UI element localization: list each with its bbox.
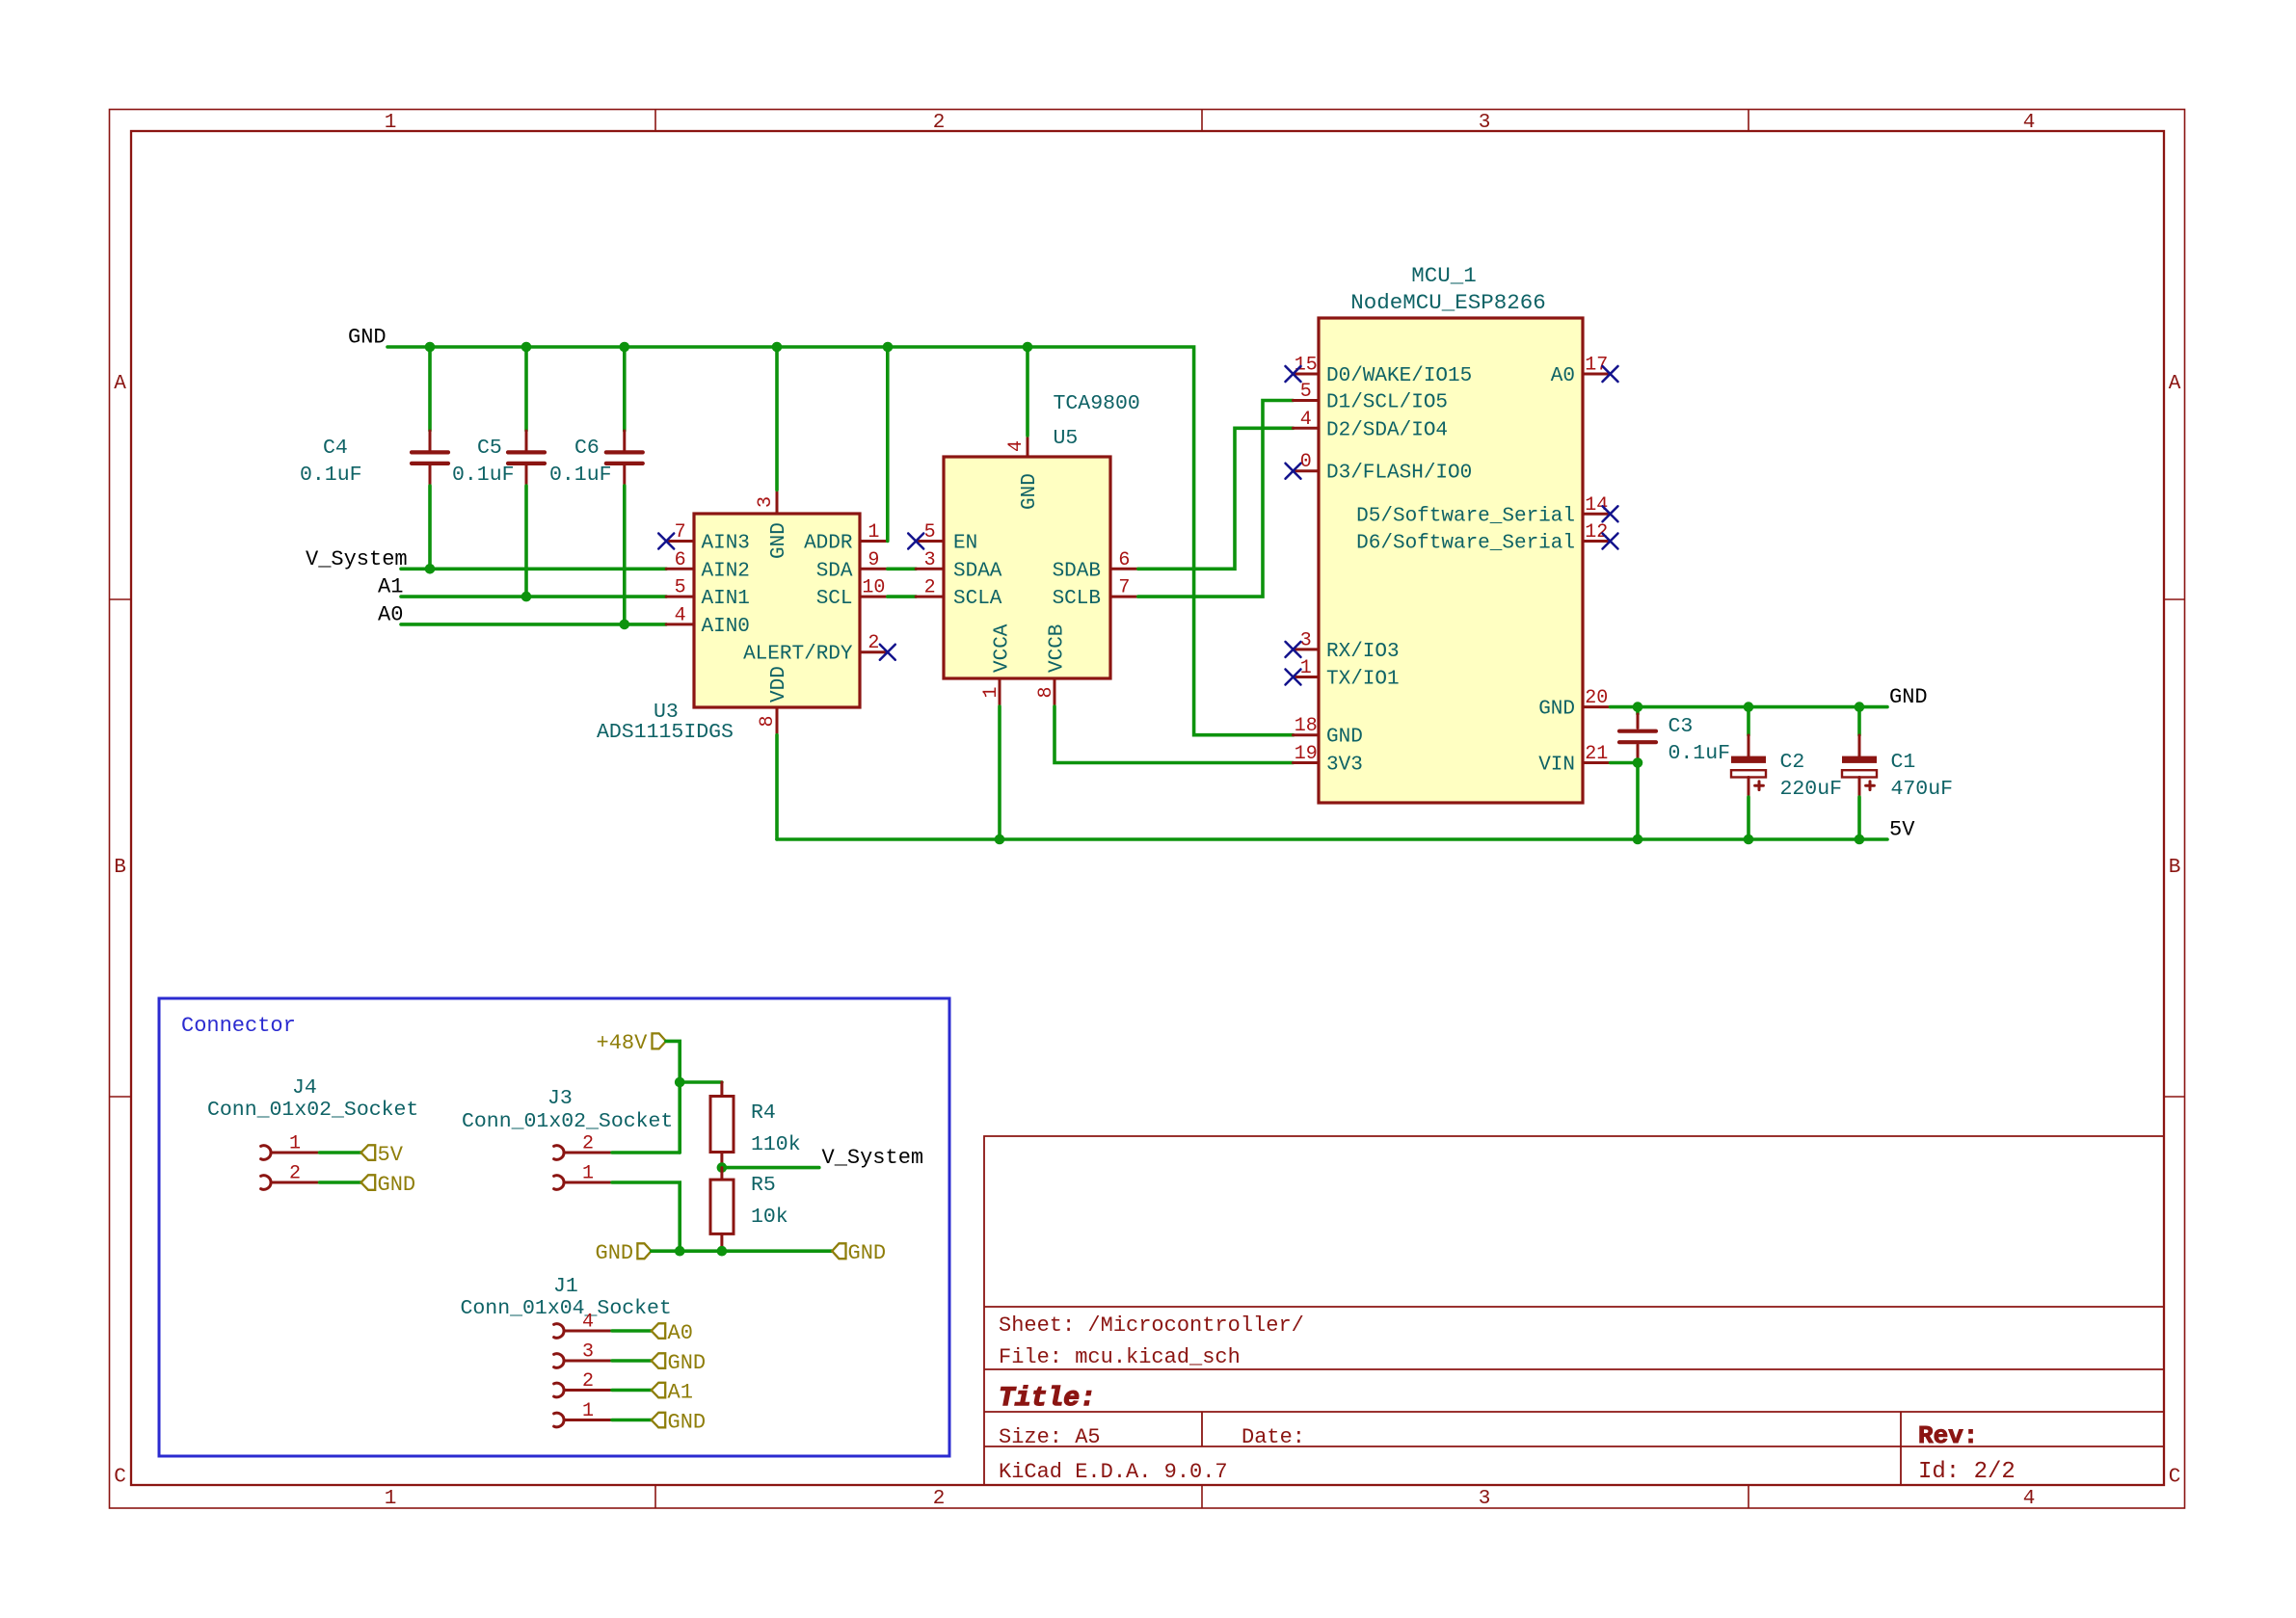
no-connect U3 ALERT/RDY	[880, 645, 895, 660]
svg-text:AIN2: AIN2	[702, 560, 750, 582]
junction +48V at R4 branch	[675, 1077, 685, 1088]
sheet frame outer border	[110, 110, 2185, 1509]
pin 5 EN	[916, 521, 977, 555]
svg-text:A0: A0	[378, 602, 403, 626]
wire MCU GND20 rail right	[1611, 705, 1888, 709]
pin 1 TX/IO1	[1294, 657, 1400, 691]
wire C6 bottom to A0	[623, 486, 627, 624]
wire SDA to SDAA	[888, 567, 916, 570]
no-connect U3 AIN3	[658, 534, 674, 549]
pin 10 SCL	[816, 577, 888, 611]
hierarchical label A0 (J1.4)	[652, 1321, 693, 1345]
IC U5 TCA9800 body	[944, 457, 1110, 678]
wire C5 bottom to A1	[524, 486, 528, 597]
svg-text:A1: A1	[378, 575, 403, 599]
hierarchical label A1 (J1.2)	[652, 1381, 693, 1405]
no-connect MCU RX	[1286, 642, 1301, 657]
capacitor C6 body	[623, 431, 626, 450]
pin 2 J3 socket	[554, 1146, 564, 1160]
svg-text:1: 1	[385, 112, 397, 134]
wire C1 bottom to 5V rail	[1857, 797, 1861, 839]
svg-text:GND: GND	[668, 1411, 707, 1435]
wire 5V rail	[777, 837, 1887, 841]
svg-text:GND: GND	[668, 1351, 707, 1375]
svg-text:Size: A5: Size: A5	[999, 1425, 1101, 1449]
svg-text:D2/SDA/IO4: D2/SDA/IO4	[1326, 419, 1448, 441]
svg-text:C: C	[2169, 1467, 2181, 1489]
svg-text:SDAA: SDAA	[953, 560, 1002, 582]
wire J3 pin2 to +48V net	[612, 1151, 680, 1154]
hierarchical label GND (J1.1)	[652, 1411, 706, 1435]
hierarchical label GND (J4)	[361, 1173, 416, 1197]
pin 1 VCCA bottom of U5	[980, 623, 1014, 706]
pin 14 D5/Software_Serial	[1356, 494, 1610, 528]
svg-text:1: 1	[868, 521, 879, 544]
svg-text:B: B	[2169, 857, 2181, 879]
svg-text:GND: GND	[1326, 727, 1363, 749]
sheet frame inner border	[131, 131, 2164, 1485]
svg-text:19: 19	[1295, 743, 1318, 765]
svg-text:10k: 10k	[751, 1206, 788, 1229]
wire C2 top	[1747, 707, 1750, 735]
svg-text:R4: R4	[751, 1101, 776, 1125]
pin 6 SDAB	[1053, 549, 1138, 583]
svg-text:17: 17	[1585, 355, 1608, 377]
svg-text:A0: A0	[1551, 365, 1575, 387]
capacitor C1 (polarized)	[1842, 707, 1953, 839]
svg-text:Title:: Title:	[999, 1384, 1096, 1414]
no-connect MCU TX	[1286, 670, 1301, 685]
no-connect MCU D6	[1603, 534, 1618, 549]
svg-text:1: 1	[1300, 657, 1312, 679]
svg-text:5V: 5V	[378, 1143, 404, 1167]
svg-text:VIN: VIN	[1538, 755, 1575, 777]
svg-text:4: 4	[1005, 440, 1028, 452]
svg-text:GND: GND	[378, 1173, 416, 1197]
junction GND rail at R5	[717, 1246, 728, 1257]
svg-text:4: 4	[582, 1312, 594, 1334]
svg-text:GND: GND	[848, 1241, 887, 1265]
svg-text:20: 20	[1585, 687, 1608, 709]
svg-text:0.1uF: 0.1uF	[452, 464, 515, 487]
svg-text:1: 1	[582, 1400, 594, 1422]
svg-text:Sheet: /Microcontroller/: Sheet: /Microcontroller/	[999, 1313, 1304, 1338]
pin 4 GND top of U5	[1005, 436, 1041, 510]
svg-text:SCLB: SCLB	[1053, 588, 1101, 610]
svg-text:KiCad E.D.A. 9.0.7: KiCad E.D.A. 9.0.7	[999, 1460, 1228, 1484]
junction GND rail at U3 ADDR	[883, 342, 894, 353]
svg-text:C: C	[114, 1467, 126, 1489]
capacitor C5	[452, 347, 545, 597]
resistor R4	[710, 1082, 801, 1168]
svg-text:3: 3	[924, 549, 936, 571]
pin 1 ADDR	[804, 521, 888, 555]
svg-text:2: 2	[924, 577, 936, 599]
wire GND top rail to MCU pin 18	[387, 347, 1294, 735]
svg-text:5: 5	[1300, 381, 1312, 403]
pin 9 SDA	[816, 549, 888, 583]
svg-text:D5/Software_Serial: D5/Software_Serial	[1356, 505, 1575, 527]
svg-text:5: 5	[675, 577, 686, 599]
wire +48V branch to R4	[680, 1080, 722, 1084]
pin 1 J1 socket	[554, 1413, 564, 1427]
svg-text:VDD: VDD	[768, 666, 790, 703]
no-connect MCU A0	[1603, 366, 1618, 382]
svg-text:3: 3	[755, 496, 777, 508]
capacitor C4 body	[429, 431, 432, 450]
svg-text:SCLA: SCLA	[953, 588, 1002, 610]
frame row tick B/C	[110, 1096, 132, 1098]
junction VIN at C3	[1633, 757, 1643, 768]
pin 4 AIN0	[666, 604, 750, 638]
capacitor C2 body	[1748, 735, 1750, 756]
no-connect MCU D3	[1286, 464, 1301, 479]
frame column tick 1/2	[654, 110, 656, 132]
pin 4 J1 socket	[554, 1324, 564, 1339]
svg-text:3: 3	[1300, 629, 1312, 651]
svg-text:110k: 110k	[751, 1133, 801, 1156]
svg-text:GND: GND	[1889, 685, 1928, 709]
svg-text:1: 1	[582, 1163, 594, 1185]
svg-text:ADS1115IDGS: ADS1115IDGS	[597, 721, 734, 744]
svg-text:Date:: Date:	[1241, 1425, 1305, 1449]
svg-text:470uF: 470uF	[1891, 778, 1954, 801]
connector J1	[461, 1275, 672, 1427]
pin 2 SCLA	[916, 577, 1002, 611]
svg-text:D3/FLASH/IO0: D3/FLASH/IO0	[1326, 463, 1472, 485]
capacitor C1 body	[1858, 735, 1861, 756]
pin 3 RX/IO3	[1294, 629, 1400, 663]
pin 17 A0 right of MCU	[1551, 355, 1611, 388]
svg-text:Id: 2/2: Id: 2/2	[1918, 1459, 2016, 1485]
svg-text:220uF: 220uF	[1780, 778, 1843, 801]
svg-text:2: 2	[582, 1133, 594, 1155]
svg-text:7: 7	[1118, 577, 1130, 599]
svg-text:J4: J4	[292, 1076, 317, 1100]
pin 3 GND top of U3	[755, 490, 790, 559]
capacitor C3	[1619, 707, 1730, 839]
svg-text:C1: C1	[1891, 751, 1916, 774]
frame row tick A/B	[110, 598, 132, 600]
svg-text:2: 2	[289, 1163, 301, 1185]
svg-text:9: 9	[868, 549, 879, 571]
wire U3 VDD down to 5V rail	[775, 735, 779, 839]
capacitor C2 (polarized)	[1731, 707, 1842, 839]
capacitor C3 body	[1637, 714, 1640, 728]
connector J3	[462, 1087, 680, 1251]
pin 4 D2/SDA/IO4	[1294, 409, 1449, 442]
pin 21 VIN	[1538, 743, 1610, 777]
svg-text:5V: 5V	[1889, 818, 1915, 842]
svg-text:A0: A0	[668, 1321, 693, 1345]
svg-text:4: 4	[675, 604, 686, 626]
pin 12 D6/Software_Serial	[1356, 521, 1610, 555]
svg-text:VCCA: VCCA	[992, 623, 1014, 673]
pin 1 J4 socket	[261, 1146, 271, 1160]
pin 2 ALERT/RDY	[743, 632, 888, 666]
no-connect MCU D5	[1603, 506, 1618, 521]
hierarchical label +48V	[597, 1031, 666, 1055]
no-connect U5 EN	[908, 534, 923, 549]
hierarchical label GND (right of divider)	[832, 1241, 886, 1265]
svg-text:C3: C3	[1669, 715, 1694, 738]
svg-text:GND: GND	[768, 522, 790, 559]
junction GND rail at U5 GND	[1023, 342, 1033, 353]
svg-text:12: 12	[1585, 521, 1608, 544]
wire C1 top	[1857, 707, 1861, 735]
wire SDAB to MCU D2/SDA/IO4	[1138, 428, 1294, 569]
svg-text:D6/Software_Serial: D6/Software_Serial	[1356, 533, 1575, 555]
resistor R5	[710, 1168, 788, 1252]
svg-text:4: 4	[1300, 409, 1312, 431]
wire C4 top	[428, 347, 432, 431]
svg-text:GND: GND	[596, 1241, 634, 1265]
wire C2 bottom to 5V rail	[1747, 797, 1750, 839]
svg-text:3: 3	[1479, 112, 1491, 134]
svg-text:AIN1: AIN1	[702, 588, 750, 610]
pin 5 AIN1	[666, 577, 750, 611]
junction 5V rail at C1	[1855, 835, 1865, 845]
svg-text:C5: C5	[477, 437, 502, 460]
junction GND20 at C3	[1633, 702, 1643, 712]
svg-text:2: 2	[868, 632, 879, 654]
pin 15 D0/WAKE/IO15	[1294, 355, 1473, 388]
svg-text:0.1uF: 0.1uF	[549, 464, 612, 487]
pin 1 J3 socket	[554, 1176, 564, 1190]
wire C5 top	[524, 347, 528, 431]
wire J4 pin2 to GND hier label	[320, 1180, 361, 1184]
svg-text:TCA9800: TCA9800	[1054, 392, 1140, 415]
capacitor C6	[549, 347, 643, 624]
svg-text:U5: U5	[1054, 427, 1079, 450]
wire GND rail of divider	[652, 1249, 833, 1253]
svg-text:Conn_01x02_Socket: Conn_01x02_Socket	[462, 1110, 673, 1133]
svg-text:0: 0	[1300, 451, 1312, 473]
svg-text:A: A	[114, 373, 126, 395]
pin 2 J4 socket	[261, 1176, 271, 1190]
junction 5V rail at C2	[1744, 835, 1754, 845]
svg-text:1: 1	[385, 1488, 397, 1510]
wire J4 pin1 to 5V hier label	[320, 1151, 361, 1154]
svg-text:A1: A1	[668, 1381, 693, 1405]
pin 2 J1 socket	[554, 1383, 564, 1397]
title block outline	[984, 1136, 2164, 1485]
wire +48V down to J3 pin 2	[666, 1041, 680, 1153]
junction GND rail at C6	[620, 342, 630, 353]
junction GND rail at J3 pin1	[675, 1246, 685, 1257]
svg-text:5: 5	[924, 521, 936, 544]
svg-text:18: 18	[1295, 715, 1318, 737]
wire divider tap to V_System label	[722, 1166, 819, 1170]
hierarchical label GND (J1.3)	[652, 1351, 706, 1375]
junction A0 at C6	[620, 620, 630, 630]
capacitor C4	[300, 347, 448, 569]
svg-text:8: 8	[757, 715, 779, 727]
junction GND20 at C1	[1855, 702, 1865, 712]
wire A0 to AIN0	[401, 623, 666, 626]
wire A1 to AIN1	[401, 595, 666, 598]
pin 8 VDD bottom of U3	[757, 666, 790, 735]
pin 0 D3/FLASH/IO0	[1294, 451, 1473, 485]
svg-text:3V3: 3V3	[1326, 755, 1363, 777]
op-amp U3 ADS1115IDGS body	[694, 514, 860, 707]
svg-text:6: 6	[675, 549, 686, 571]
wire MCU VIN to C3	[1611, 761, 1639, 765]
wire V_System to AIN2	[401, 567, 666, 570]
svg-text:B: B	[114, 857, 126, 879]
svg-text:Conn_01x04_Socket: Conn_01x04_Socket	[461, 1297, 672, 1320]
hierarchical label 5V (J4)	[361, 1143, 404, 1167]
junction 5V rail at C3	[1633, 835, 1643, 845]
pin 6 AIN2	[666, 549, 750, 583]
svg-text:V_System: V_System	[822, 1146, 924, 1170]
svg-text:Connector: Connector	[181, 1014, 296, 1038]
svg-text:8: 8	[1035, 686, 1057, 698]
wire J3 pin1 to GND net	[612, 1182, 680, 1251]
wire C6 top	[623, 347, 627, 431]
wire U5 GND pin to rail	[1026, 347, 1029, 436]
no-connect MCU D0	[1286, 366, 1301, 382]
svg-text:D0/WAKE/IO15: D0/WAKE/IO15	[1326, 365, 1472, 387]
svg-text:0.1uF: 0.1uF	[300, 464, 362, 487]
pin 19 3V3	[1294, 743, 1363, 777]
svg-text:14: 14	[1585, 494, 1608, 517]
svg-text:10: 10	[862, 577, 885, 599]
Connector group box	[159, 998, 949, 1456]
pin 3 J1 socket	[554, 1354, 564, 1368]
svg-text:6: 6	[1118, 549, 1130, 571]
frame column tick 3/4	[1748, 110, 1749, 132]
pin 7 AIN3	[666, 521, 750, 555]
svg-text:File: mcu.kicad_sch: File: mcu.kicad_sch	[999, 1345, 1241, 1369]
pin 3 SDAA	[916, 549, 1002, 583]
junction GND rail at U3 GND	[772, 342, 783, 353]
svg-text:TX/IO1: TX/IO1	[1326, 669, 1400, 691]
connector J4	[207, 1076, 418, 1189]
pin 5 D1/SCL/IO5	[1294, 381, 1449, 414]
svg-text:J3: J3	[547, 1087, 573, 1110]
svg-text:SDAB: SDAB	[1053, 560, 1101, 582]
svg-text:C4: C4	[323, 437, 348, 460]
svg-text:2: 2	[933, 112, 946, 134]
wire ADDR up to GND rail	[886, 347, 890, 542]
pin 7 SCLB	[1053, 577, 1138, 611]
svg-text:RX/IO3: RX/IO3	[1326, 641, 1400, 663]
junction V_System divider tap	[717, 1162, 728, 1173]
wire SCL to SCLA	[888, 595, 916, 598]
junction GND rail at C5	[521, 342, 532, 353]
hierarchical label GND (left of divider)	[596, 1241, 652, 1265]
frame column tick 2/3	[1201, 110, 1203, 132]
svg-text:NodeMCU_ESP8266: NodeMCU_ESP8266	[1350, 290, 1546, 315]
MCU_1 NodeMCU_ESP8266 body	[1319, 318, 1583, 803]
svg-text:MCU_1: MCU_1	[1411, 263, 1477, 288]
svg-text:ALERT/RDY: ALERT/RDY	[743, 644, 853, 666]
svg-text:21: 21	[1585, 743, 1608, 765]
wire SCLB to MCU D1/SCL/IO5	[1138, 401, 1294, 597]
svg-text:7: 7	[675, 521, 686, 544]
svg-text:D1/SCL/IO5: D1/SCL/IO5	[1326, 392, 1448, 414]
svg-text:+48V: +48V	[597, 1031, 649, 1055]
pin 8 VCCB bottom of U5	[1035, 624, 1069, 706]
svg-text:GND: GND	[1019, 473, 1041, 510]
wire C4 bottom to V_System	[428, 486, 432, 569]
svg-text:3: 3	[582, 1341, 594, 1364]
svg-text:A: A	[2169, 373, 2181, 395]
capacitor C5 body	[525, 431, 528, 450]
svg-text:C6: C6	[574, 437, 600, 460]
junction V_System at C4	[425, 564, 436, 574]
wire C3 top	[1636, 707, 1640, 714]
svg-text:1: 1	[980, 686, 1002, 698]
svg-text:Conn_01x02_Socket: Conn_01x02_Socket	[207, 1099, 418, 1122]
svg-text:1: 1	[289, 1133, 301, 1155]
wire C3 bottom down to 5V rail	[1636, 761, 1640, 839]
svg-text:AIN0: AIN0	[702, 616, 750, 638]
svg-text:VCCB: VCCB	[1047, 624, 1069, 673]
junction GND20 at C2	[1744, 702, 1754, 712]
wire U3 GND pin to rail	[775, 347, 779, 490]
wire U5 VCCB to MCU 3V3	[1055, 706, 1294, 763]
svg-text:Rev:: Rev:	[1918, 1421, 1978, 1450]
pin 18 GND left of MCU	[1294, 715, 1363, 749]
pin 20 GND right of MCU	[1538, 687, 1610, 721]
svg-text:R5: R5	[751, 1174, 776, 1197]
svg-text:ADDR: ADDR	[804, 533, 853, 555]
svg-text:0.1uF: 0.1uF	[1669, 742, 1731, 765]
svg-text:4: 4	[2023, 1488, 2036, 1510]
svg-text:J1: J1	[553, 1275, 578, 1298]
svg-text:GND: GND	[348, 326, 387, 350]
svg-text:2: 2	[582, 1370, 594, 1393]
svg-text:V_System: V_System	[306, 547, 408, 571]
svg-text:4: 4	[2023, 112, 2036, 134]
wire U5 VCCA down to 5V rail	[998, 706, 1001, 839]
svg-text:GND: GND	[1538, 699, 1575, 721]
svg-text:3: 3	[1479, 1488, 1491, 1510]
svg-text:AIN3: AIN3	[702, 533, 750, 555]
svg-text:15: 15	[1295, 355, 1318, 377]
svg-text:SDA: SDA	[816, 560, 853, 582]
junction GND rail at C4	[425, 342, 436, 353]
svg-text:C2: C2	[1780, 751, 1805, 774]
svg-text:EN: EN	[953, 533, 977, 555]
junction 5V rail at VCCA	[995, 835, 1005, 845]
svg-text:SCL: SCL	[816, 588, 853, 610]
svg-text:2: 2	[933, 1488, 946, 1510]
junction A1 at C5	[521, 592, 532, 602]
